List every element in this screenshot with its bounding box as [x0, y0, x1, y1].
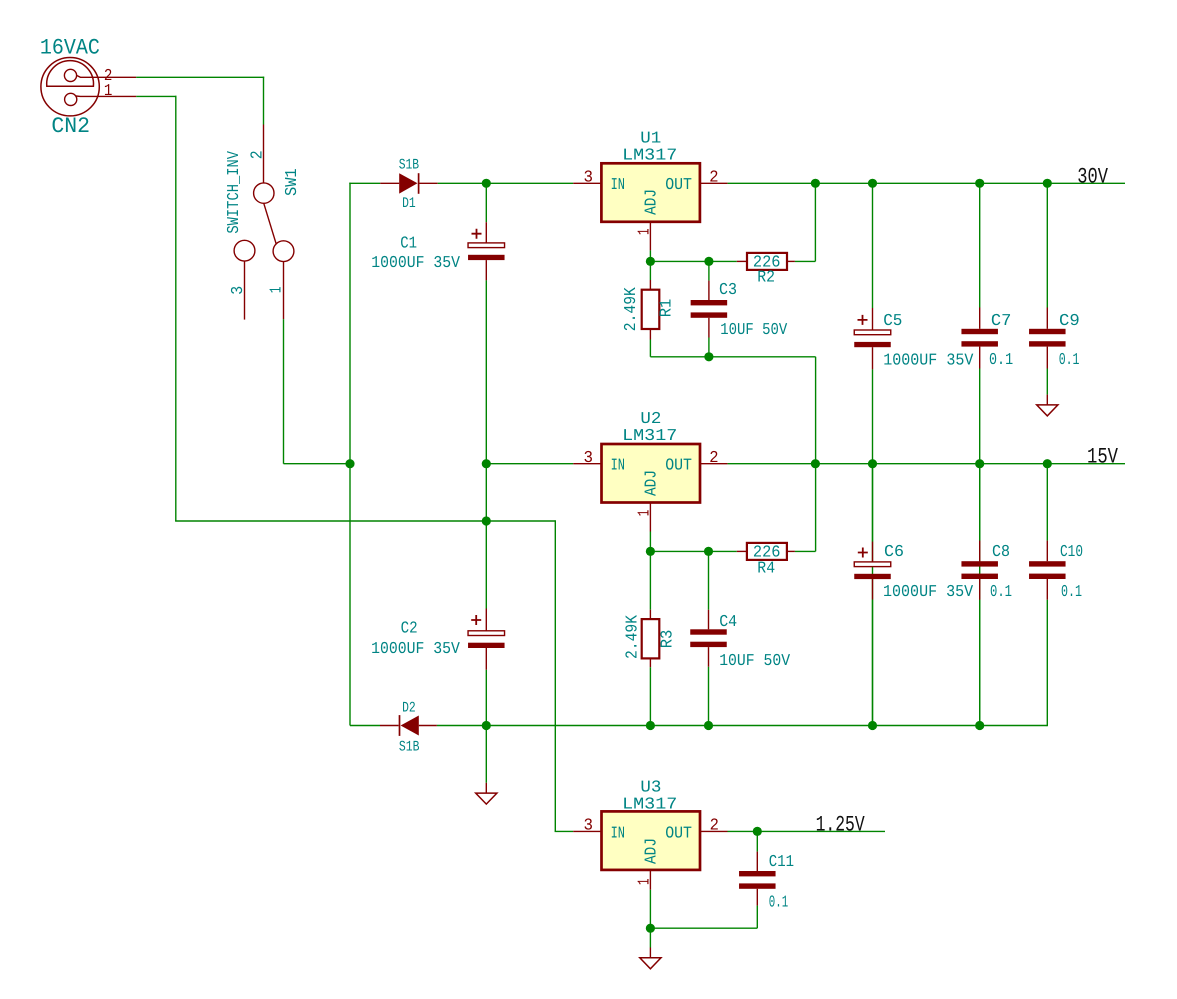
svg-text:S1B: S1B	[399, 157, 420, 173]
resistor R1 bottom pin	[649, 329, 651, 340]
wire C4 bottom	[708, 667, 710, 726]
wire R3 top	[649, 551, 651, 609]
plus sign of C5	[858, 315, 868, 325]
svg-text:1: 1	[104, 81, 113, 100]
capacitor C3 top pin	[708, 261, 710, 280]
svg-text:C10: C10	[1060, 542, 1083, 561]
svg-text:R4: R4	[757, 559, 775, 578]
wire C2 bottom	[485, 670, 487, 726]
diode D1	[380, 173, 437, 194]
capacitor C11 bottom pin	[756, 889, 758, 906]
svg-text:CN2: CN2	[51, 114, 90, 139]
svg-text:3: 3	[584, 448, 594, 467]
resistor R4 left pin	[737, 550, 747, 552]
diode D2	[380, 715, 437, 736]
svg-text:LM317: LM317	[622, 795, 677, 814]
op-amp regulator U1 body	[601, 163, 700, 222]
wire R3 bottom	[649, 667, 651, 725]
svg-text:C7: C7	[991, 311, 1012, 330]
wire ADJ2 horizontal	[650, 550, 736, 552]
svg-text:0.1: 0.1	[989, 350, 1013, 369]
wire CN2 pin2 to SW1 (horizontal)	[136, 76, 264, 78]
resistor R3 bottom pin	[649, 658, 651, 667]
wire riser to 30V rail	[814, 183, 816, 261]
wire U3 ADJ down	[649, 890, 651, 928]
svg-text:IN: IN	[611, 456, 625, 475]
svg-text:C8: C8	[992, 542, 1010, 561]
svg-text:1000UF 35V: 1000UF 35V	[883, 350, 973, 369]
svg-text:1000UF 35V: 1000UF 35V	[883, 582, 973, 601]
junction C6 top	[868, 459, 877, 468]
svg-text:1: 1	[634, 879, 653, 886]
wire down to C1	[485, 183, 487, 222]
junction C5 top	[868, 179, 877, 188]
svg-text:1000UF 35V: 1000UF 35V	[371, 253, 460, 272]
svg-text:LM317: LM317	[622, 145, 677, 164]
svg-text:IN: IN	[611, 824, 625, 843]
svg-text:SW1: SW1	[282, 168, 301, 196]
wire C5 bottom	[872, 369, 874, 725]
svg-text:0.1: 0.1	[1061, 582, 1082, 601]
resistor R2 body	[747, 253, 787, 270]
plus sign of C2	[471, 615, 481, 625]
svg-text:10UF 50V: 10UF 50V	[719, 651, 790, 670]
junction C4 bottom node	[704, 721, 713, 730]
wire U2 IN feed	[486, 463, 573, 465]
capacitor C6	[854, 562, 891, 579]
capacitor C7	[961, 329, 998, 347]
svg-text:3: 3	[584, 167, 594, 186]
junction C6 bottom node	[868, 721, 877, 730]
capacitor C1	[468, 243, 505, 260]
resistor R4 right pin	[787, 550, 795, 552]
capacitor C7 pins	[979, 308, 981, 329]
svg-text:3: 3	[584, 816, 594, 835]
svg-text:C11: C11	[769, 852, 794, 871]
pin 3 stub of U2	[573, 463, 601, 465]
wire C9 to ground	[1046, 369, 1048, 395]
resistor R2 left pin	[737, 260, 747, 262]
wire U2 ADJ down	[649, 532, 651, 552]
ground C9 ground	[1037, 395, 1058, 416]
svg-text:1.25V: 1.25V	[816, 813, 866, 838]
junction C3 top node	[704, 257, 713, 266]
junction C9 top	[1043, 179, 1052, 188]
svg-text:OUT: OUT	[665, 456, 692, 475]
wire U3 ground drop	[649, 928, 651, 947]
pin 2 stub of U1	[700, 182, 728, 184]
wire C9 top	[1046, 183, 1048, 307]
wire SW1 pin1 to AC node	[284, 463, 351, 465]
svg-text:C1: C1	[400, 233, 417, 252]
svg-text:C3: C3	[719, 280, 737, 299]
svg-text:1: 1	[634, 510, 653, 517]
svg-text:C9: C9	[1059, 311, 1080, 330]
wire U3 OUT to 1.25V rail	[728, 830, 886, 832]
junction C7 top	[975, 179, 984, 188]
junction U2 ADJ node	[646, 547, 655, 556]
junction U1 ADJ node	[646, 257, 655, 266]
svg-text:IN: IN	[611, 175, 625, 194]
svg-text:OUT: OUT	[665, 175, 692, 194]
svg-text:16VAC: 16VAC	[40, 36, 100, 61]
wire CN2 pin2 drop (vertical)	[263, 77, 265, 125]
svg-text:1: 1	[267, 287, 286, 294]
svg-text:1: 1	[634, 228, 653, 235]
svg-text:2.49K: 2.49K	[621, 287, 640, 331]
svg-text:R2: R2	[757, 268, 775, 287]
wire C6 bottom	[872, 600, 874, 726]
wire C7 bottom	[979, 369, 981, 726]
wire ADJ1 bottom horizontal	[650, 356, 815, 358]
svg-text:S1B: S1B	[399, 740, 420, 756]
junction U2 IN node	[482, 459, 491, 468]
capacitor C8	[961, 561, 998, 579]
svg-text:3: 3	[228, 286, 247, 295]
junction U3 ADJ/gnd node	[646, 924, 655, 933]
wire C10 top	[1046, 464, 1048, 541]
ground main ground	[476, 783, 497, 804]
svg-text:15V: 15V	[1087, 445, 1119, 470]
capacitor C4	[690, 629, 727, 647]
capacitor C5 pins	[872, 308, 874, 330]
svg-text:10UF 50V: 10UF 50V	[720, 320, 787, 339]
wire C8 bottom	[979, 600, 981, 726]
svg-text:30V: 30V	[1077, 164, 1108, 189]
capacitor C9 pins	[1046, 308, 1048, 329]
wire R2 to riser	[795, 260, 816, 262]
wire C1 bottom long vertical	[485, 280, 487, 608]
svg-text:C5: C5	[883, 311, 902, 330]
junction C2/ground node	[482, 721, 491, 730]
pin 3 stub of U3	[573, 830, 601, 832]
pin 3 stub of U1	[573, 182, 601, 184]
op-amp regulator U3 body	[602, 811, 701, 870]
wire y=521 horizontal to U3 feed	[175, 520, 555, 522]
wire x=815 vertical to 15V rail	[815, 357, 817, 552]
svg-text:1000UF 35V: 1000UF 35V	[371, 639, 460, 658]
capacitor C6 pins	[872, 542, 874, 562]
svg-text:0.1: 0.1	[990, 582, 1012, 601]
wire CN2 pin1 (horizontal)	[136, 95, 176, 97]
wire ADJ3 horizontal	[650, 927, 757, 929]
junction R3 bottom node	[646, 721, 655, 730]
junction C8 bottom node	[975, 721, 984, 730]
svg-text:LM317: LM317	[622, 426, 677, 445]
svg-text:ADJ: ADJ	[642, 189, 661, 215]
svg-text:ADJ: ADJ	[642, 838, 661, 864]
capacitor C11 top pin	[756, 831, 758, 851]
wire SW1 pin1 down	[283, 319, 285, 464]
junction C1-C2 / U3 feed node	[482, 516, 491, 525]
svg-text:0.1: 0.1	[769, 893, 788, 912]
wire AC vertical x=350	[349, 183, 351, 726]
svg-text:C4: C4	[719, 612, 737, 631]
capacitor C1 pins	[485, 222, 487, 243]
svg-text:2: 2	[709, 448, 718, 467]
wire C8 top	[979, 464, 981, 541]
capacitor C3	[691, 300, 728, 318]
capacitor C9	[1029, 329, 1066, 347]
svg-text:D1: D1	[402, 196, 416, 212]
resistor R3 top pin	[649, 610, 651, 619]
junction C8 top	[975, 459, 984, 468]
wire CN2 pin1 drop (vertical)	[175, 96, 177, 521]
resistor R3 body	[642, 619, 660, 658]
wire bottom rail to D2	[350, 725, 380, 727]
plus sign of C1	[472, 229, 482, 239]
junction C11 top node	[753, 827, 762, 836]
junction R1 net / 15V rail	[811, 459, 820, 468]
ground U3 ground	[640, 948, 661, 969]
connector CN2 (barrel jack)	[41, 57, 136, 115]
junction C3 bottom node	[704, 352, 713, 361]
capacitor C5	[854, 330, 891, 347]
wire C11 bottom	[756, 906, 758, 929]
wire R1 bottom	[649, 340, 651, 357]
capacitor C2	[468, 631, 505, 648]
pin 2 stub of U3	[700, 830, 728, 832]
capacitor C10	[1029, 561, 1066, 579]
switch SW1	[234, 125, 294, 320]
wire into U3 IN	[555, 830, 574, 832]
svg-text:D2: D2	[402, 701, 416, 717]
svg-text:SWITCH_INV: SWITCH_INV	[224, 151, 243, 234]
wire C7 top	[979, 183, 981, 307]
svg-text:R3: R3	[657, 630, 676, 649]
wire D1 cathode to U1 IN	[438, 182, 574, 184]
junction SW1/AC node	[345, 459, 354, 468]
junction D1/C1/U1	[482, 179, 491, 188]
capacitor C8 pins	[979, 541, 981, 562]
capacitor C4 top pin	[708, 551, 710, 609]
pin 1 stub of U2 (ADJ)	[649, 503, 651, 532]
op-amp regulator U2 body	[602, 444, 701, 503]
svg-text:2: 2	[710, 816, 719, 835]
svg-text:R1: R1	[656, 299, 675, 318]
resistor R1 body	[642, 290, 660, 329]
wire C10 bottom	[1046, 600, 1048, 726]
wire bottom rail	[437, 725, 1047, 727]
svg-text:2.49K: 2.49K	[623, 615, 642, 659]
wire top rail to D1	[349, 182, 380, 184]
pin 1 stub of U1 (ADJ)	[649, 222, 651, 251]
resistor R2 right pin	[787, 260, 795, 262]
wire C6 top	[872, 464, 874, 542]
wire ground drop from bottom rail	[485, 726, 487, 783]
wire C3 bottom	[708, 338, 710, 357]
wire U2 OUT to 15V rail	[728, 463, 1125, 465]
wire R1 top	[649, 261, 651, 280]
wire ADJ1 horizontal	[650, 260, 736, 262]
svg-text:C6: C6	[884, 542, 904, 561]
pin 1 stub of U3 (ADJ)	[649, 870, 651, 890]
plus sign of C6	[858, 548, 868, 558]
wire x=555 vertical to U3	[554, 520, 556, 831]
svg-text:OUT: OUT	[665, 824, 692, 843]
pin 2 stub of U2	[700, 463, 728, 465]
capacitor C2 pins	[485, 609, 487, 631]
resistor R4 body	[747, 543, 787, 560]
capacitor C11	[739, 871, 776, 889]
svg-text:ADJ: ADJ	[642, 470, 661, 496]
capacitor C4 bottom pin	[708, 647, 710, 667]
wire R4 to riser	[795, 550, 816, 552]
junction R2/30V rail	[811, 179, 820, 188]
junction C10 top	[1043, 459, 1052, 468]
capacitor C10 pins	[1046, 541, 1048, 562]
svg-text:2: 2	[247, 150, 266, 159]
wire U1 OUT to 30V rail	[728, 182, 1125, 184]
junction C4 top node	[704, 547, 713, 556]
svg-text:2: 2	[709, 167, 718, 186]
wire C5 top	[872, 183, 874, 308]
resistor R1 top pin	[649, 280, 651, 290]
svg-text:C2: C2	[401, 618, 418, 637]
capacitor C3 bottom pin	[708, 318, 710, 338]
svg-text:0.1: 0.1	[1059, 350, 1080, 369]
wire U1 ADJ down	[649, 250, 651, 261]
